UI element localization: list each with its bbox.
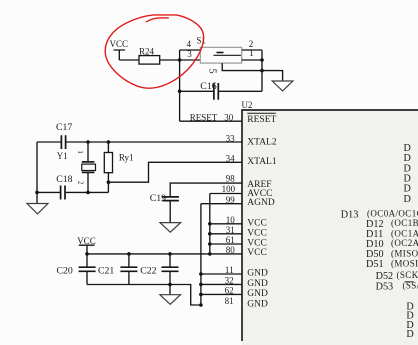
- pin name D13: [341, 209, 418, 221]
- wire net RESET to chip pin 30: [180, 113, 242, 123]
- svg-text:(OC0A/OC1C/PCINT7): (OC0A/OC1C/PCINT7): [367, 209, 418, 219]
- svg-text:D: D: [406, 329, 413, 340]
- capacitor C17: [37, 122, 242, 149]
- svg-text:98: 98: [226, 173, 236, 183]
- chip U2 body: [242, 110, 418, 345]
- junction dot pin80/rail: [208, 252, 212, 256]
- junction dot pin31: [208, 232, 212, 236]
- svg-text:C22: C22: [140, 265, 156, 276]
- junction dot Ry1 bottom: [107, 180, 111, 184]
- wire VCC bus vertical: [209, 194, 211, 254]
- svg-text:AGND: AGND: [247, 198, 275, 208]
- capacitor C22: [140, 254, 178, 295]
- svg-text:VCC: VCC: [110, 39, 129, 49]
- pin name RESET with overline: [247, 113, 276, 125]
- junction dot C22 / ground rail: [168, 283, 172, 287]
- wire VCC pin 61: [210, 243, 242, 245]
- svg-text:100: 100: [222, 184, 236, 194]
- svg-text:VCC: VCC: [247, 239, 267, 249]
- crystal Y1: [57, 142, 96, 192]
- svg-text:D52: D52: [376, 271, 394, 282]
- wire GND pin 32: [201, 283, 242, 285]
- svg-text:3: 3: [187, 49, 192, 59]
- ground symbol left: [27, 191, 48, 214]
- junction dot C22 top: [168, 252, 172, 256]
- wire GND pin 62: [201, 293, 242, 295]
- pin name D12: [366, 218, 418, 230]
- svg-text:XTAL1: XTAL1: [247, 157, 277, 167]
- svg-text:11: 11: [225, 265, 234, 275]
- wire VCC to R24: [119, 59, 139, 61]
- junction dot pin1/bus: [260, 58, 264, 62]
- svg-text:30: 30: [224, 113, 234, 123]
- svg-text:U2: U2: [242, 100, 253, 110]
- svg-text:1: 1: [249, 48, 254, 58]
- wire ground branch top right: [262, 71, 283, 81]
- wire VCC pin 31: [210, 233, 242, 235]
- svg-text:GND: GND: [247, 299, 268, 309]
- wire to S1 pin 4: [180, 39, 201, 50]
- wire GND bus vertical: [200, 204, 202, 305]
- pin name D52: [376, 270, 418, 282]
- wire corner up to Ry1 bottom: [107, 182, 109, 192]
- svg-text:34: 34: [226, 154, 236, 164]
- wire VCC pin 10: [210, 223, 242, 225]
- svg-text:VCC: VCC: [247, 218, 267, 228]
- svg-text:32: 32: [225, 275, 234, 285]
- svg-text:D53: D53: [376, 281, 394, 292]
- wire AVCC to chip pin 100: [210, 193, 242, 195]
- svg-text:C17: C17: [56, 122, 72, 133]
- wire to S1 pin 3: [180, 49, 201, 60]
- wire ground rail: [87, 285, 201, 306]
- svg-text:C16: C16: [200, 81, 216, 92]
- wire node A up to pin4 level: [179, 50, 181, 60]
- svg-text:R24: R24: [139, 46, 155, 56]
- svg-text:33: 33: [226, 134, 236, 144]
- power VCC (top): [110, 39, 129, 60]
- svg-text:80: 80: [226, 245, 236, 255]
- svg-text:31: 31: [226, 225, 235, 235]
- capacitor C19: [150, 193, 179, 223]
- red hand-drawn circle annotation: [105, 15, 203, 88]
- svg-text:4: 4: [187, 39, 192, 49]
- capacitor C21: [98, 254, 137, 285]
- svg-text:61: 61: [226, 235, 235, 245]
- wire S1 pin 2: [242, 39, 262, 50]
- resistor R24: [139, 46, 160, 64]
- pin name D53: [376, 281, 418, 293]
- wire AGND to chip pin 99: [201, 203, 242, 205]
- pin name D10: [366, 238, 418, 250]
- wire right vertical bus: [261, 50, 263, 91]
- ground symbol under C19: [160, 223, 181, 233]
- svg-text:C19: C19: [150, 193, 166, 204]
- capacitor C20: [57, 254, 96, 285]
- node A junction dot: [178, 58, 182, 62]
- wire S1 pin 1: [242, 48, 262, 60]
- svg-text:XTAL2: XTAL2: [247, 138, 277, 148]
- wire VCC rail to chip pin 80: [87, 253, 242, 255]
- svg-text:GND: GND: [247, 289, 268, 299]
- wire XTAL1 to chip pin 34: [108, 162, 242, 182]
- pin name D51: [366, 258, 418, 270]
- wire GND pin 11: [201, 273, 242, 275]
- svg-text:RESET: RESET: [190, 113, 218, 123]
- svg-text:VCC: VCC: [247, 228, 267, 238]
- svg-text:C18: C18: [56, 174, 72, 185]
- power VCC (bottom): [77, 236, 96, 254]
- overline for SS of D53: [405, 281, 414, 283]
- ground symbol top right: [272, 81, 293, 91]
- switch S1: [196, 35, 241, 63]
- svg-text:RESET: RESET: [247, 115, 276, 125]
- resistor Ry1: [104, 142, 133, 182]
- svg-text:10: 10: [226, 215, 236, 225]
- wire S1 pin 5: [207, 63, 263, 74]
- svg-text:C20: C20: [57, 265, 73, 276]
- junction dot pin10: [208, 222, 212, 226]
- svg-text:(MISO/PCINT3): (MISO/PCINT3): [391, 248, 418, 258]
- junction dot Ry1 top: [107, 140, 111, 144]
- junction dot node A / C16: [178, 90, 182, 94]
- pin name D50: [366, 248, 418, 260]
- junction dot gnd branch: [260, 69, 264, 73]
- svg-text:GND: GND: [247, 279, 268, 289]
- junction dot pin81: [199, 303, 203, 307]
- svg-text:S1: S1: [196, 35, 206, 45]
- capacitor C18: [37, 174, 108, 200]
- junction dot crystal top: [86, 140, 90, 144]
- svg-text:(SCK/PCINT1): (SCK/PCINT1): [397, 270, 418, 280]
- wire left vertical: [36, 142, 38, 192]
- wire node A down to RESET: [179, 60, 181, 121]
- capacitor C16: [180, 81, 262, 100]
- junction dot C21 top: [127, 252, 131, 256]
- svg-text:VCC: VCC: [247, 248, 267, 258]
- svg-text:81: 81: [225, 296, 234, 306]
- svg-text:D51: D51: [366, 259, 384, 270]
- ground symbol under C22: [160, 295, 181, 305]
- svg-text:(MOSI/PCINT2): (MOSI/PCINT2): [391, 258, 418, 268]
- svg-text:D13: D13: [341, 209, 359, 220]
- svg-text:5: 5: [207, 69, 218, 74]
- svg-text:1: 1: [76, 150, 84, 154]
- svg-text:GND: GND: [247, 269, 268, 279]
- junction dot pin62: [199, 293, 203, 297]
- svg-text:99: 99: [226, 195, 236, 205]
- svg-text:(OC1A/PCINT5): (OC1A/PCINT5): [391, 228, 418, 238]
- svg-text:C21: C21: [98, 265, 114, 276]
- junction dot pin61: [208, 242, 212, 246]
- svg-text:(OC2A/PCINT4): (OC2A/PCINT4): [391, 238, 418, 248]
- wire AREF to chip pin 98: [170, 183, 242, 196]
- svg-text:62: 62: [225, 285, 234, 295]
- svg-text:(OC1B/PCINT6): (OC1B/PCINT6): [391, 218, 418, 228]
- junction dot pin32: [199, 283, 203, 287]
- svg-text:Y1: Y1: [57, 151, 68, 161]
- wire R24 to node A: [160, 59, 180, 61]
- junction dot C20 top: [85, 252, 89, 256]
- svg-text:Ry1: Ry1: [119, 152, 134, 162]
- svg-text:D: D: [404, 194, 411, 205]
- pin name D11: [366, 228, 418, 240]
- junction dot pin11: [199, 272, 203, 276]
- junction dot crystal bottom: [86, 191, 90, 195]
- svg-text:VCC: VCC: [77, 236, 96, 246]
- svg-text:2: 2: [76, 181, 84, 185]
